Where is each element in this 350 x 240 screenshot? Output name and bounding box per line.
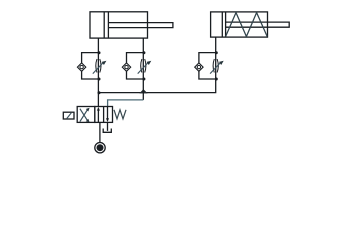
valve V4 middle line (right box) — [103, 107, 105, 123]
cylinder A1 piston rod — [108, 23, 172, 28]
valve V4 pushbutton actuator — [63, 112, 74, 119]
wire: cylinder A1 rod port down to valve V2 — [142, 38, 144, 53]
valve V4 crossed-flow arrow 1 (left box) — [80, 109, 88, 122]
cylinder A1 (double-acting) barrel — [90, 12, 148, 38]
wire: horizontal manifold from port A junction to V3 — [98, 79, 215, 93]
junction node at port A tee — [98, 91, 101, 94]
flow control valve V1 (check valve + throttle) — [77, 51, 106, 80]
cylinder A2 piston rod — [226, 22, 290, 27]
valve V4 up-arrow P->A (right box) — [97, 109, 99, 123]
wire: cylinder A2 port down to valve V3 — [215, 37, 217, 53]
flow control valve V2 (check valve + throttle) — [122, 51, 151, 80]
valve V4 body right box — [95, 107, 113, 123]
valve V4 (4/2-way) body left box — [77, 107, 95, 123]
wire: cylinder A1 cap port down to valve V1 — [97, 38, 99, 53]
wire: V2 main down through hop to corner — [142, 79, 144, 100]
wire: V1 down to junction and valve port A — [97, 79, 99, 107]
exhaust symbol — [103, 129, 111, 133]
cylinder A2 (single-acting, spring return) barrel — [211, 12, 268, 37]
cylinder A2 return spring — [226, 13, 268, 37]
wire: valve port B up and right to V2 column (highlighted) — [108, 100, 144, 107]
cylinder A2 piston — [221, 12, 223, 37]
valve V4 crossed-flow arrow 2 (left box) — [80, 109, 88, 122]
valve V4 return spring — [114, 110, 126, 119]
valve V4 down-arrow B->R (right box) — [107, 107, 109, 121]
wire hop (crossing, no connection) over V2 line — [140, 90, 146, 93]
flow control valve V3 (check valve + throttle) — [195, 51, 224, 80]
wire: valve V4 supply port down to source — [99, 122, 101, 142]
exhaust port stub — [107, 122, 109, 130]
cylinder A1 piston — [103, 12, 105, 38]
compressed air source P1 — [95, 143, 105, 153]
